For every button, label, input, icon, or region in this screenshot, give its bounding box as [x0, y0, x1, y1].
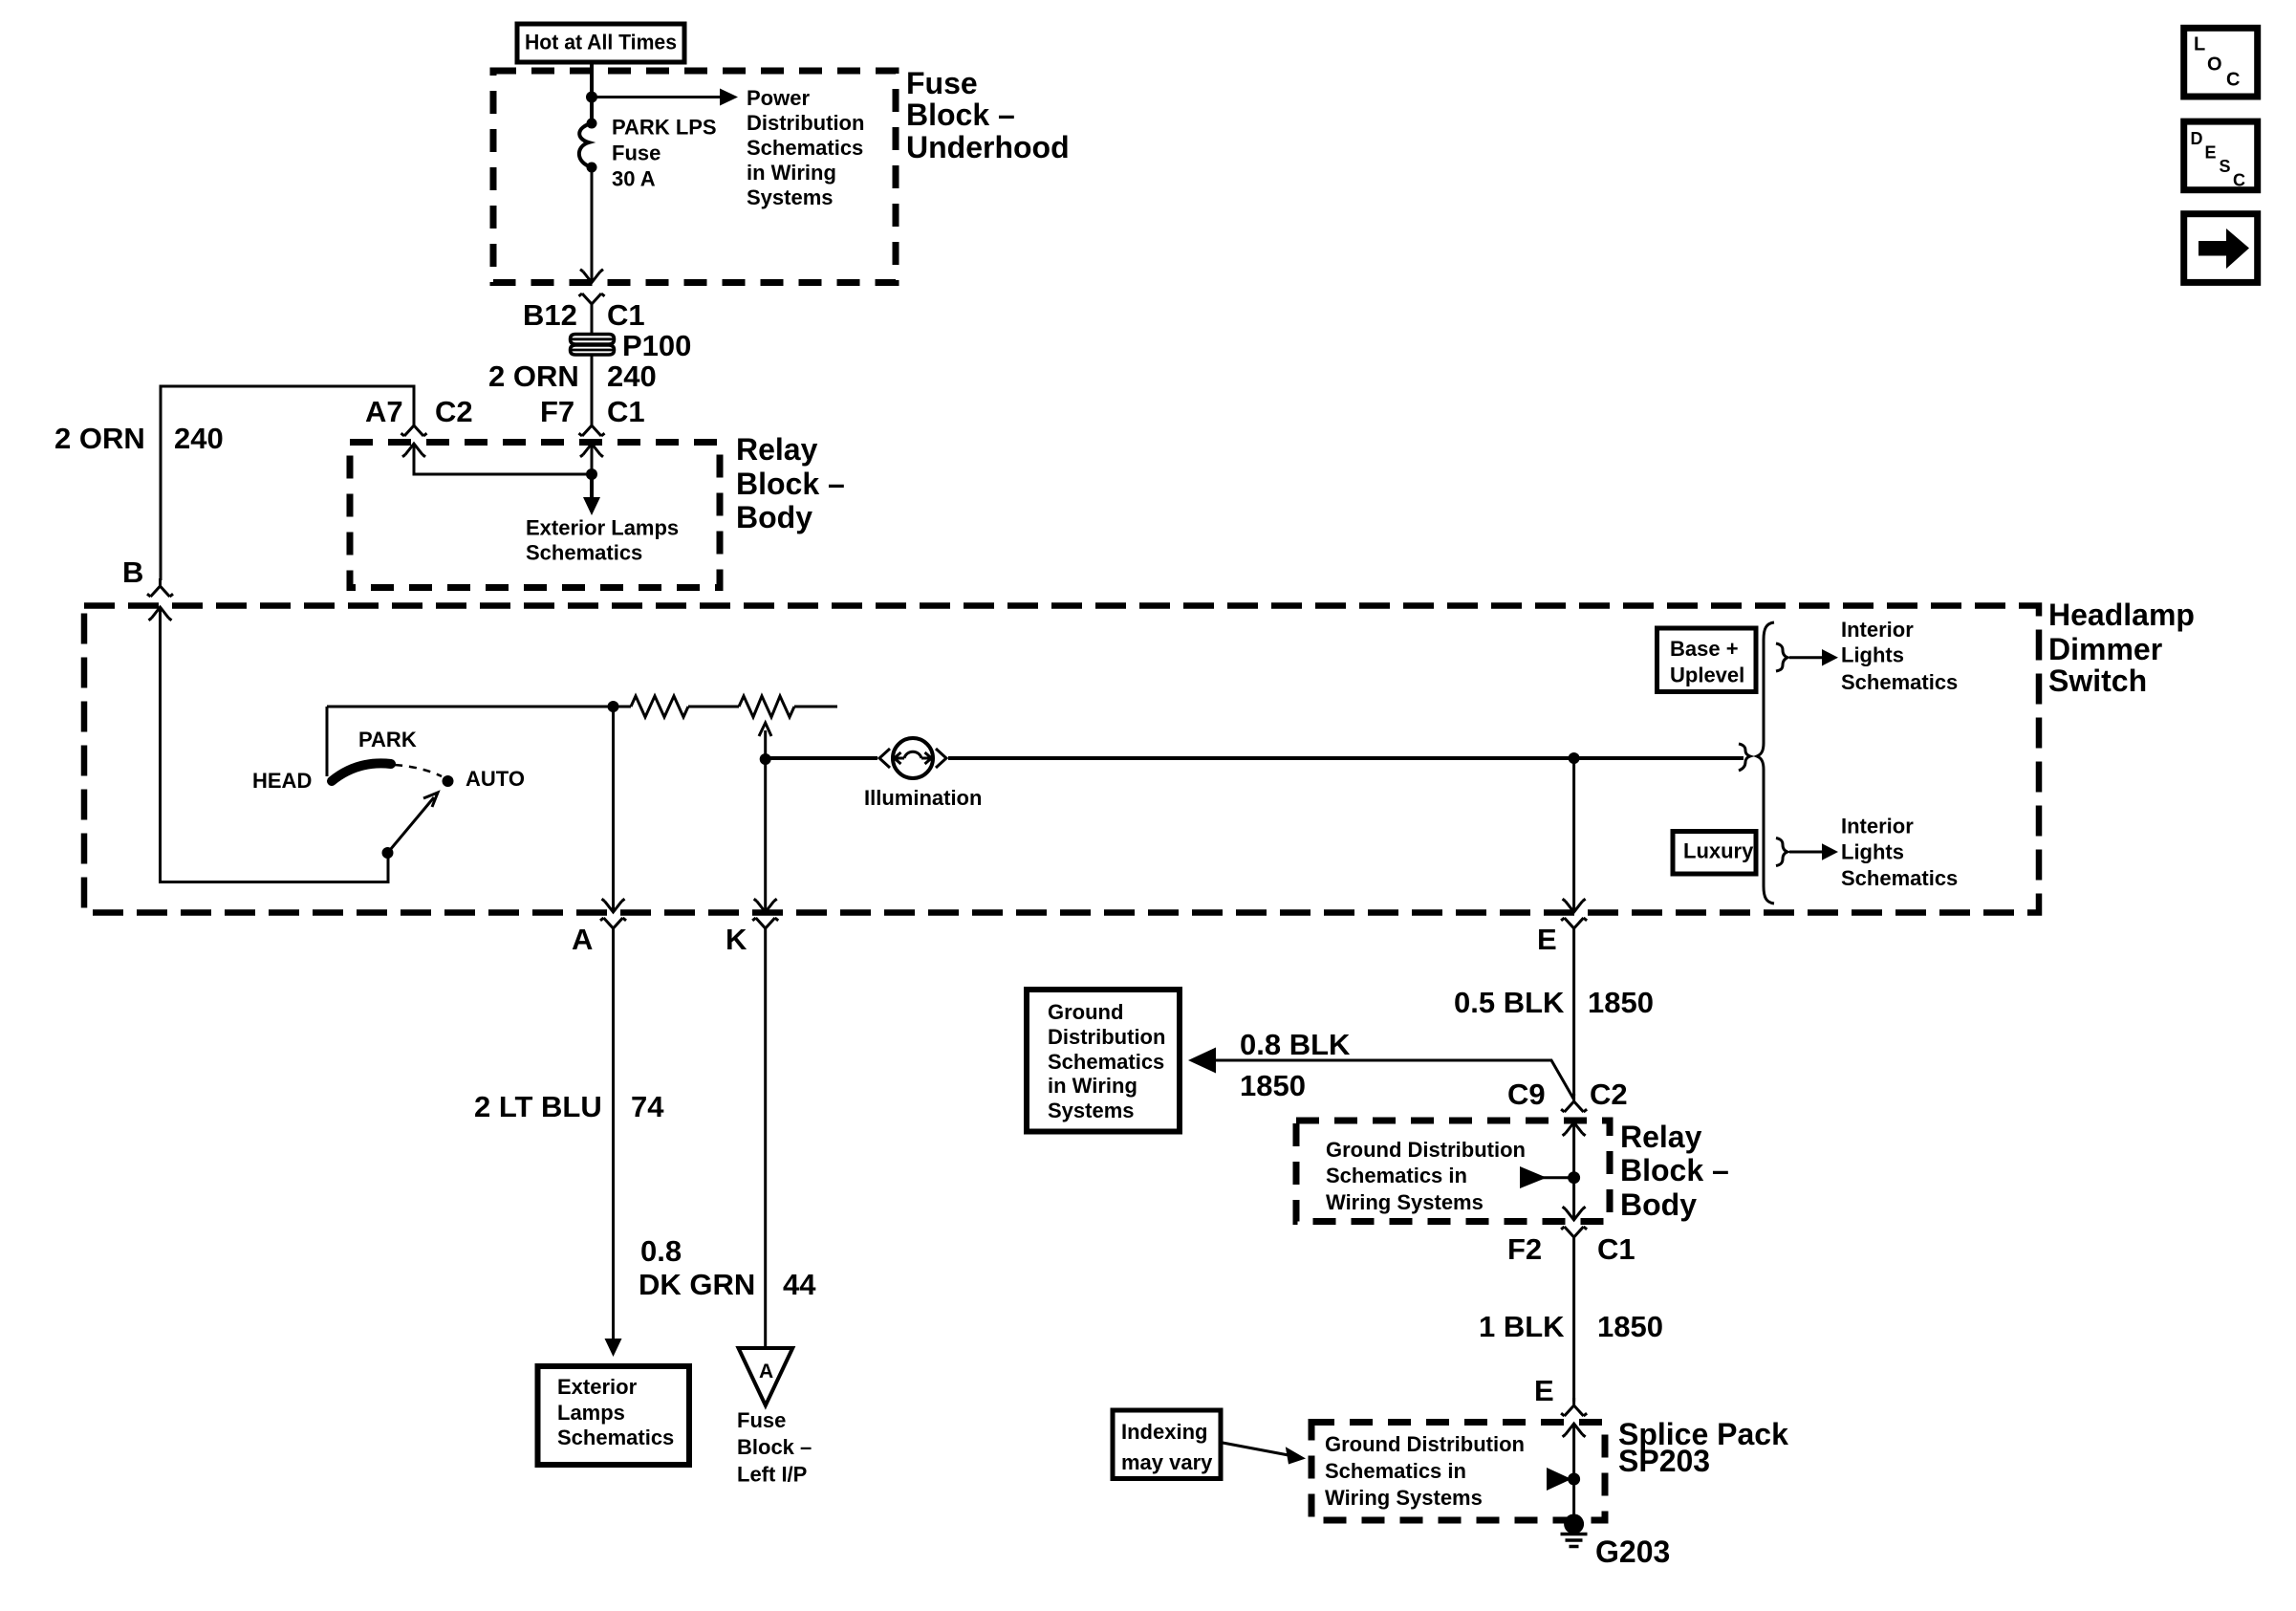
svg-text:240: 240 — [607, 359, 657, 393]
svg-text:Schematics in: Schematics in — [1326, 1164, 1467, 1187]
wire fuse to fuse block edge — [591, 167, 594, 282]
lamp Illumination — [893, 738, 933, 778]
reference stub to Exterior Lamps Schematics — [590, 474, 594, 499]
svg-text:Interior: Interior — [1841, 815, 1914, 838]
arrow Indexing to splice pack — [1223, 1443, 1289, 1455]
svg-text:C: C — [2233, 171, 2245, 190]
switch wiper thick arc HEAD to PARK — [332, 763, 391, 781]
label box Exterior Lamps Schematics — [538, 1366, 690, 1465]
svg-text:Exterior: Exterior — [557, 1375, 638, 1399]
dashed travel curve PARK to AUTO — [395, 765, 442, 776]
svg-text:B: B — [122, 555, 143, 589]
svg-text:B12: B12 — [523, 298, 577, 332]
svg-text:Uplevel: Uplevel — [1670, 664, 1744, 687]
resistor element 2 — [739, 696, 794, 717]
wire to illumination lamp — [766, 756, 877, 760]
inline connector P100 — [571, 335, 615, 345]
switch movable contact arrow toward AUTO — [388, 797, 435, 853]
brace at Luxury group — [1776, 838, 1787, 866]
label box Base + Uplevel — [1657, 628, 1757, 692]
svg-text:Body: Body — [736, 500, 812, 534]
connector arrow out of relay block 2 (male, down) — [1563, 1207, 1586, 1220]
svg-text:Ground Distribution: Ground Distribution — [1325, 1432, 1525, 1456]
component box Relay Block - Body 2 (dashed) — [1296, 1121, 1610, 1222]
svg-text:C1: C1 — [607, 298, 645, 332]
svg-text:Ground: Ground — [1048, 1000, 1123, 1024]
wire A output down — [612, 707, 615, 912]
connector E female (below dimmer box) — [1561, 918, 1587, 940]
rheostat wiper arrow — [764, 730, 767, 759]
button LOC — [2184, 28, 2258, 97]
arrow to Power Distribution Schematics — [720, 89, 738, 106]
svg-text:Schematics: Schematics — [557, 1426, 674, 1449]
svg-text:0.8: 0.8 — [640, 1234, 682, 1268]
arrow to Interior Lights Schematics (upper) — [1822, 649, 1838, 666]
svg-text:Fuse: Fuse — [737, 1408, 786, 1432]
svg-text:1850: 1850 — [1240, 1069, 1306, 1102]
svg-text:Systems: Systems — [747, 185, 834, 209]
svg-text:Block –: Block – — [906, 98, 1015, 132]
junction dot relay block 2 — [1568, 1171, 1580, 1184]
connector B12/C1 female — [579, 294, 605, 316]
connector triangle A to Fuse Block Left I/P — [739, 1348, 793, 1405]
svg-text:Wiring Systems: Wiring Systems — [1326, 1190, 1484, 1214]
options big brace — [1757, 622, 1774, 903]
fuse PARK LPS 30A element — [579, 123, 592, 167]
svg-text:2 LT BLU: 2 LT BLU — [474, 1090, 602, 1123]
wire to Power Distribution reference — [592, 96, 720, 98]
component box Splice Pack SP203 (dashed) — [1311, 1423, 1605, 1521]
junction dot A branch — [608, 701, 619, 712]
svg-text:C1: C1 — [607, 395, 645, 428]
wire P100 to F7 — [591, 355, 594, 422]
svg-text:Headlamp: Headlamp — [2048, 598, 2195, 632]
label box Hot at All Times — [517, 24, 684, 62]
svg-text:Wiring Systems: Wiring Systems — [1325, 1486, 1483, 1510]
next arrow glyph — [2199, 229, 2249, 269]
svg-text:C2: C2 — [1590, 1078, 1628, 1111]
junction dot K branch — [760, 753, 771, 765]
junction dot splice pack — [1568, 1473, 1580, 1486]
svg-text:Block –: Block – — [736, 467, 845, 501]
connector arrow into relay block at F7 (male, up) — [580, 444, 603, 457]
svg-text:in Wiring: in Wiring — [1048, 1074, 1137, 1098]
wire K down to fuse block left IP — [764, 940, 767, 1348]
svg-text:1850: 1850 — [1597, 1310, 1663, 1343]
connector E female (splice pack) — [1561, 1398, 1587, 1416]
svg-text:PARK LPS: PARK LPS — [612, 116, 717, 140]
svg-text:Luxury: Luxury — [1683, 839, 1754, 863]
connector A female (below dimmer box) — [600, 918, 626, 940]
wire K output down — [764, 759, 767, 912]
switch common terminal dot — [382, 847, 394, 859]
connector arrow into splice pack (male, up) — [1563, 1424, 1586, 1437]
svg-text:Distribution: Distribution — [1048, 1025, 1165, 1049]
svg-text:Schematics: Schematics — [1841, 866, 1958, 890]
connector arrow into relay block 2 (male, up) — [1563, 1122, 1586, 1136]
reference stub arrow in splice pack — [1547, 1468, 1571, 1491]
arrow to Interior Lights Schematics (lower) — [1822, 843, 1838, 860]
svg-text:Fuse: Fuse — [906, 66, 978, 100]
svg-text:2 ORN: 2 ORN — [54, 422, 145, 455]
svg-text:AUTO: AUTO — [466, 767, 525, 791]
label box Indexing may vary — [1113, 1410, 1221, 1479]
svg-text:30 A: 30 A — [612, 167, 656, 191]
label box Ground Distribution Schematics in Wiring Systems — [1027, 990, 1180, 1132]
svg-text:may vary: may vary — [1121, 1450, 1213, 1474]
wire switch feed from resistor row — [326, 707, 329, 776]
arrow into Exterior Lamps Schematics box — [605, 1339, 622, 1357]
wire 0.8 BLK 1850 — [1203, 1060, 1574, 1099]
arrow to Exterior Lamps Schematics — [583, 497, 600, 515]
svg-text:Underhood: Underhood — [906, 130, 1070, 164]
svg-text:L: L — [2194, 34, 2205, 55]
svg-text:K: K — [726, 923, 747, 956]
wire to Interior Lights Schematics (lower) — [1789, 851, 1822, 854]
svg-text:Schematics: Schematics — [747, 136, 863, 160]
svg-text:Indexing: Indexing — [1121, 1420, 1207, 1444]
svg-text:F7: F7 — [540, 395, 574, 428]
svg-text:Schematics in: Schematics in — [1325, 1459, 1466, 1483]
svg-text:Body: Body — [1620, 1187, 1697, 1222]
svg-text:0.5 BLK: 0.5 BLK — [1454, 986, 1565, 1019]
component box Fuse Block - Underhood (dashed) — [493, 71, 896, 283]
svg-text:P100: P100 — [622, 329, 691, 362]
svg-text:Distribution: Distribution — [747, 111, 864, 135]
svg-text:HEAD: HEAD — [252, 769, 312, 793]
svg-text:C1: C1 — [1597, 1232, 1635, 1266]
svg-text:Lamps: Lamps — [557, 1401, 625, 1425]
svg-text:Left I/P: Left I/P — [737, 1463, 807, 1487]
options connector small brace — [1739, 744, 1750, 771]
svg-text:S: S — [2220, 157, 2231, 176]
svg-text:Illumination: Illumination — [864, 786, 982, 810]
connector arrow into relay block at A7 (male, up) — [402, 444, 425, 457]
wire E down to C9 — [1572, 940, 1575, 1096]
svg-text:SP203: SP203 — [1618, 1444, 1710, 1478]
connector C9/C2 female — [1561, 1094, 1587, 1112]
wire resistor row — [327, 706, 631, 708]
ground symbol G203 — [1561, 1535, 1588, 1547]
wire lamp to E junction — [948, 756, 1744, 760]
svg-text:240: 240 — [174, 422, 224, 455]
svg-text:Schematics: Schematics — [1048, 1050, 1164, 1074]
wire B12 to P100 — [591, 316, 594, 335]
connector arrow E (male, down) — [1563, 899, 1586, 912]
svg-text:A7: A7 — [365, 395, 403, 428]
svg-text:F2: F2 — [1507, 1232, 1542, 1266]
svg-text:Ground Distribution: Ground Distribution — [1326, 1138, 1526, 1162]
svg-text:Dimmer: Dimmer — [2048, 632, 2162, 666]
component box Relay Block - Body (dashed) — [350, 443, 720, 588]
svg-text:A: A — [759, 1361, 773, 1382]
svg-text:Power: Power — [747, 86, 810, 110]
button DESC — [2184, 121, 2258, 190]
ground G203 terminal dot — [1564, 1514, 1584, 1535]
svg-text:74: 74 — [631, 1090, 664, 1123]
svg-text:G203: G203 — [1595, 1535, 1670, 1569]
wire F2 down to splice pack — [1572, 1249, 1575, 1402]
wire junction to A7 branch — [414, 444, 592, 474]
reference stub arrow in relay block 2 — [1520, 1166, 1547, 1188]
connector arrow K (male, down) — [754, 899, 777, 912]
svg-text:DK GRN: DK GRN — [639, 1268, 755, 1301]
wire through relay block 2 — [1572, 1122, 1575, 1220]
svg-text:Interior: Interior — [1841, 618, 1914, 642]
svg-text:Block –: Block – — [1620, 1153, 1729, 1187]
junction dot E branch — [1569, 752, 1580, 764]
svg-text:Hot at All Times: Hot at All Times — [525, 31, 677, 54]
connector arrow out of fuse block (male, down) — [580, 270, 603, 283]
wire B to switch common — [161, 607, 389, 882]
connector chevron left of lamp — [879, 749, 890, 768]
svg-text:O: O — [2207, 54, 2222, 76]
svg-text:2 ORN: 2 ORN — [488, 359, 579, 393]
arrow to Ground Distribution box — [1188, 1048, 1216, 1074]
svg-text:Switch: Switch — [2048, 664, 2147, 698]
svg-text:Lights: Lights — [1841, 840, 1904, 864]
svg-text:C: C — [2226, 70, 2240, 91]
svg-text:Exterior Lamps: Exterior Lamps — [526, 516, 679, 540]
svg-text:Relay: Relay — [1620, 1120, 1702, 1154]
connector arrow A (male, down) — [602, 899, 625, 912]
svg-text:Relay: Relay — [736, 432, 818, 467]
svg-text:Schematics: Schematics — [1841, 670, 1958, 694]
svg-text:PARK: PARK — [358, 728, 417, 751]
wire rheostat open end — [794, 706, 837, 708]
wire to Interior Lights Schematics (upper) — [1789, 656, 1822, 659]
wire E output down — [1572, 758, 1575, 912]
connector arrow into dimmer switch at B (male, up) — [149, 607, 172, 620]
svg-text:E: E — [2205, 143, 2217, 163]
svg-text:Schematics: Schematics — [526, 541, 642, 565]
svg-text:Block –: Block – — [737, 1435, 812, 1459]
svg-text:Lights: Lights — [1841, 643, 1904, 667]
fuse PARK LPS 30A bottom terminal dot — [587, 163, 597, 173]
component box Headlamp Dimmer Switch (dashed) — [84, 606, 2039, 913]
connector F2/C1 female — [1561, 1227, 1587, 1249]
fuse PARK LPS 30A top terminal dot — [587, 119, 597, 129]
brace at Base+Uplevel group — [1776, 643, 1787, 671]
connector A7/C2 female — [401, 418, 427, 436]
svg-text:Systems: Systems — [1048, 1099, 1135, 1122]
wire between resistors — [688, 706, 739, 708]
svg-text:D: D — [2191, 129, 2203, 148]
svg-text:Fuse: Fuse — [612, 142, 661, 165]
AUTO terminal dot — [443, 775, 454, 787]
svg-text:in Wiring: in Wiring — [747, 161, 836, 185]
connector K female (below dimmer box) — [752, 918, 778, 940]
svg-text:44: 44 — [783, 1268, 816, 1301]
button next arrow — [2184, 214, 2258, 283]
wire A down to exterior lamps — [612, 940, 615, 1340]
svg-text:1850: 1850 — [1588, 986, 1654, 1019]
label box Luxury — [1673, 832, 1756, 875]
junction dot hot feed — [586, 92, 597, 103]
svg-text:A: A — [572, 923, 593, 956]
connector F7/C1 female — [579, 418, 605, 436]
resistor element 1 — [631, 696, 688, 717]
svg-text:1 BLK: 1 BLK — [1479, 1310, 1565, 1343]
connector B female — [147, 578, 173, 597]
wire F7 down to junction — [591, 444, 594, 474]
svg-text:Base +: Base + — [1670, 637, 1739, 661]
svg-text:C2: C2 — [435, 395, 473, 428]
wire through splice pack to ground — [1572, 1424, 1575, 1520]
wire A7 up and across to B — [161, 386, 414, 580]
svg-text:C9: C9 — [1507, 1078, 1546, 1111]
connector chevron right of lamp — [936, 749, 946, 768]
junction dot relay block — [586, 468, 597, 480]
svg-text:E: E — [1534, 1374, 1554, 1407]
svg-text:E: E — [1537, 923, 1557, 956]
svg-text:0.8 BLK: 0.8 BLK — [1240, 1028, 1351, 1061]
wire from Hot at All Times into fuse block — [590, 62, 594, 123]
